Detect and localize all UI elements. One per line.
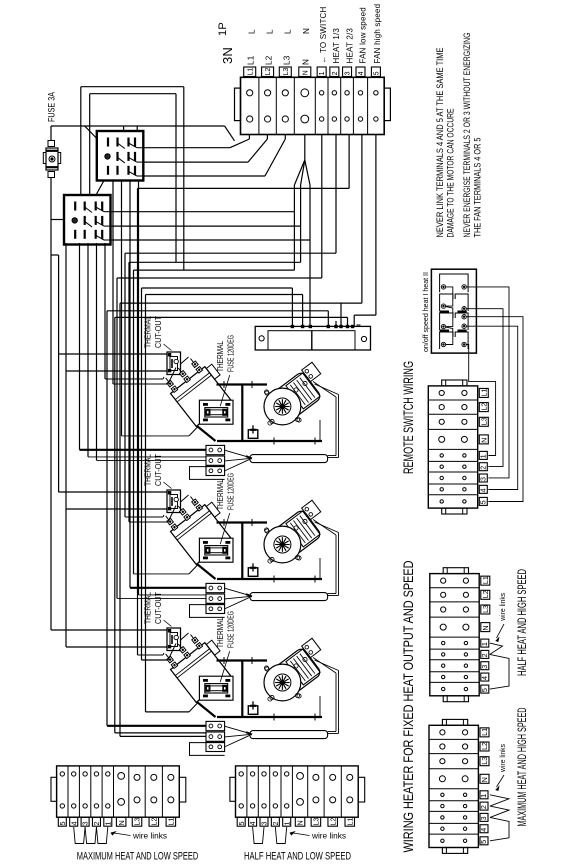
svg-text:THERMAL: THERMAL <box>215 341 225 372</box>
svg-text:THERMAL: THERMAL <box>143 454 153 486</box>
svg-text:3N: 3N <box>220 47 235 64</box>
svg-text:N: N <box>481 625 490 630</box>
svg-text:3: 3 <box>479 477 488 481</box>
svg-text:5: 5 <box>479 840 488 844</box>
svg-text:1: 1 <box>319 71 326 75</box>
svg-text:4: 4 <box>479 828 488 832</box>
svg-text:3: 3 <box>81 822 90 826</box>
svg-text:L: L <box>248 29 257 34</box>
svg-text:CUT-OUT: CUT-OUT <box>153 316 163 348</box>
svg-text:N: N <box>117 820 126 825</box>
svg-text:5: 5 <box>479 500 488 504</box>
svg-text:L3: L3 <box>480 417 489 425</box>
svg-text:MAXIMUM HEAT AND HIGH SPEED: MAXIMUM HEAT AND HIGH SPEED <box>515 707 529 826</box>
svg-text:1P: 1P <box>217 22 229 36</box>
svg-text:HEAT 1/3: HEAT 1/3 <box>332 28 341 64</box>
svg-text:wire links: wire links <box>311 832 346 841</box>
svg-text:2: 2 <box>479 805 488 809</box>
svg-text:FUSE 3A: FUSE 3A <box>47 92 57 122</box>
svg-text:4: 4 <box>358 71 365 75</box>
svg-text:2: 2 <box>479 466 488 470</box>
svg-text:2: 2 <box>271 822 280 826</box>
svg-text:4: 4 <box>480 676 489 680</box>
svg-text:THERMAL: THERMAL <box>215 479 225 510</box>
svg-text:FAN low speed: FAN low speed <box>359 7 368 63</box>
svg-text:FUSE 120DEG: FUSE 120DEG <box>226 611 236 648</box>
svg-text:FUSE 120DEG: FUSE 120DEG <box>226 335 236 372</box>
svg-text:NEVER LINK TERMINALS 4 AND 5 A: NEVER LINK TERMINALS 4 AND 5 AT THE SAME… <box>435 48 445 238</box>
svg-text:N: N <box>480 777 489 782</box>
svg-text:3: 3 <box>479 816 488 820</box>
svg-text:wire links: wire links <box>500 592 507 621</box>
svg-text:THE FAN TERMINALS 4 OR 5: THE FAN TERMINALS 4 OR 5 <box>473 138 483 238</box>
svg-text:L3: L3 <box>480 757 489 765</box>
svg-text:← TO SWITCH: ← TO SWITCH <box>319 6 328 63</box>
svg-text:L1: L1 <box>166 818 175 826</box>
svg-text:N: N <box>296 820 305 825</box>
svg-text:L1: L1 <box>247 55 256 65</box>
svg-text:L1: L1 <box>345 818 354 826</box>
svg-text:L3: L3 <box>312 818 321 826</box>
svg-text:5: 5 <box>237 822 246 826</box>
svg-text:L2: L2 <box>480 742 489 750</box>
svg-text:L3: L3 <box>283 55 292 65</box>
svg-text:4: 4 <box>69 822 78 826</box>
svg-text:2: 2 <box>92 822 101 826</box>
svg-text:L: L <box>284 29 293 34</box>
svg-text:2: 2 <box>480 653 489 657</box>
svg-text:L1: L1 <box>247 68 254 76</box>
svg-text:1: 1 <box>479 794 488 798</box>
svg-text:L2: L2 <box>481 590 490 598</box>
svg-text:4: 4 <box>248 822 257 826</box>
svg-text:FUSE 120DEG: FUSE 120DEG <box>226 473 236 510</box>
svg-text:DAMAGE TO THE MOTOR CAN OCCURE: DAMAGE TO THE MOTOR CAN OCCURE <box>446 109 456 238</box>
svg-text:1: 1 <box>282 822 291 826</box>
svg-text:1: 1 <box>479 454 488 458</box>
svg-text:HALF HEAT AND HIGH SPEED: HALF HEAT AND HIGH SPEED <box>515 569 529 676</box>
svg-text:L1: L1 <box>481 576 490 584</box>
svg-text:WIRING HEATER FOR FIXED HEAT O: WIRING HEATER FOR FIXED HEAT OUTPUT AND … <box>400 561 416 853</box>
svg-text:THERMAL: THERMAL <box>143 316 153 348</box>
svg-text:REMOTE SWITCH WIRING: REMOTE SWITCH WIRING <box>400 361 416 474</box>
svg-text:L3: L3 <box>283 68 290 76</box>
svg-text:wire links: wire links <box>500 744 507 773</box>
svg-text:N: N <box>302 59 311 65</box>
svg-text:3: 3 <box>260 822 269 826</box>
svg-text:N: N <box>302 28 311 34</box>
svg-text:CUT-OUT: CUT-OUT <box>153 454 163 486</box>
svg-text:5: 5 <box>480 688 489 692</box>
svg-text:HALF HEAT AND LOW SPEED: HALF HEAT AND LOW SPEED <box>244 851 351 863</box>
svg-text:1: 1 <box>103 822 112 826</box>
svg-text:3: 3 <box>480 665 489 669</box>
svg-text:5: 5 <box>58 822 67 826</box>
svg-text:L2: L2 <box>328 818 337 826</box>
svg-text:L2: L2 <box>480 403 489 411</box>
svg-text:L1: L1 <box>480 728 489 736</box>
svg-text:L3: L3 <box>133 818 142 826</box>
svg-text:3: 3 <box>345 71 352 75</box>
svg-text:wire links: wire links <box>132 832 167 841</box>
svg-text:N: N <box>480 438 489 443</box>
svg-text:5: 5 <box>374 71 381 75</box>
svg-text:THERMAL: THERMAL <box>215 617 225 648</box>
svg-text:FAN high speed: FAN high speed <box>373 4 382 64</box>
svg-text:on/off speed heat I heat II: on/off speed heat I heat II <box>423 272 430 352</box>
svg-text:MAXIMUM HEAT AND LOW SPEED: MAXIMUM HEAT AND LOW SPEED <box>77 851 199 863</box>
svg-text:1: 1 <box>480 642 489 646</box>
svg-text:L: L <box>266 29 275 34</box>
svg-text:N: N <box>302 70 309 75</box>
svg-text:4: 4 <box>479 488 488 492</box>
svg-text:L2: L2 <box>265 68 272 76</box>
svg-text:L2: L2 <box>265 55 274 65</box>
svg-text:THERMAL: THERMAL <box>143 592 153 624</box>
svg-text:2: 2 <box>332 71 339 75</box>
svg-text:HEAT 2/3: HEAT 2/3 <box>346 28 355 64</box>
svg-text:NEVER ENERGISE TERMINALS 2 OR: NEVER ENERGISE TERMINALS 2 OR 3 WITHOUT … <box>462 33 472 238</box>
svg-text:L2: L2 <box>149 818 158 826</box>
svg-text:L3: L3 <box>481 605 490 613</box>
svg-text:CUT-OUT: CUT-OUT <box>153 592 163 624</box>
svg-text:L1: L1 <box>480 388 489 396</box>
